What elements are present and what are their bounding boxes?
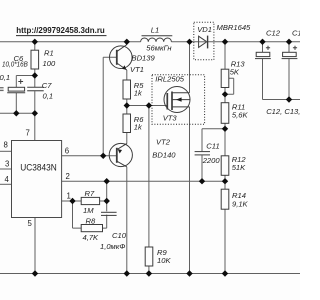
svg-text:1k: 1k — [134, 122, 143, 131]
node R11 C11 link — [222, 126, 228, 132]
diode VD1 — [199, 36, 208, 49]
wire L1 to VT3 drain junction — [189, 42, 191, 93]
svg-text:VT3: VT3 — [163, 114, 178, 123]
svg-text:6: 6 — [65, 147, 69, 156]
svg-text:2: 2 — [66, 172, 70, 181]
capacitor C13 — [282, 46, 298, 59]
resistor R5 — [123, 80, 131, 99]
svg-text:5K: 5K — [230, 67, 240, 76]
svg-text:C7: C7 — [42, 81, 52, 90]
node ground pin5 — [32, 270, 38, 276]
svg-text:3: 3 — [5, 160, 9, 169]
node bases junction — [100, 153, 106, 159]
wire VT2 collector to ground — [126, 167, 128, 274]
node mid rail pin7 — [32, 110, 38, 116]
svg-text:10K: 10K — [157, 256, 171, 265]
wire R12 to R14 — [224, 175, 226, 189]
node C13 bottom — [286, 96, 292, 102]
node top rail VT3 drain — [186, 39, 192, 45]
MOSFET VT3 IRL2505 — [164, 87, 190, 113]
svg-text:10,0*16В: 10,0*16В — [2, 60, 28, 69]
inductor L1 — [141, 36, 173, 42]
svg-text:C11: C11 — [206, 141, 219, 150]
svg-text:56мкГн: 56мкГн — [146, 43, 172, 52]
transistor VT2 BD140 — [109, 143, 132, 166]
svg-text:0,1: 0,1 — [43, 92, 54, 101]
node gate R9 — [146, 102, 152, 108]
svg-text:1M: 1M — [83, 206, 94, 215]
diode VD1 dashed box — [194, 22, 214, 60]
IC U1 UC3843N — [12, 141, 62, 218]
svg-text:L1: L1 — [151, 25, 159, 34]
svg-text:7: 7 — [26, 128, 30, 137]
svg-text:VT1: VT1 — [130, 65, 144, 74]
transistor VT1 BD139 — [110, 45, 133, 70]
capacitor C6 — [7, 79, 25, 93]
node top rail R1 — [32, 39, 38, 45]
node ground R14 — [222, 270, 228, 276]
svg-text:100: 100 — [43, 59, 56, 68]
wire pin 2 feedback net — [62, 180, 225, 182]
svg-text:5,6K: 5,6K — [232, 110, 249, 119]
wire C12 C13 bottom rail — [263, 42, 301, 100]
svg-text:1k: 1k — [134, 88, 143, 97]
node top rail R13 — [222, 39, 228, 45]
resistor R13 — [221, 69, 229, 87]
wire pin 6 to VT1 VT2 bases — [62, 57, 116, 156]
node R7 right — [104, 198, 110, 204]
wire pin 4 stub — [0, 183, 12, 185]
svg-text:UC3843N: UC3843N — [20, 163, 57, 174]
node ground R9 — [146, 270, 152, 276]
svg-text:0,1: 0,1 — [0, 73, 10, 82]
wire VT1 collector emitter column — [126, 42, 128, 80]
wire R7 right to C10 and R8 — [100, 181, 107, 228]
wire R14 to ground — [224, 209, 226, 273]
capacitor C12 — [255, 46, 271, 59]
svg-text:2200: 2200 — [202, 156, 221, 165]
node feedback R7 — [104, 178, 110, 184]
svg-text:http://299792458.3dn.ru: http://299792458.3dn.ru — [16, 25, 105, 35]
svg-text:VD1: VD1 — [197, 25, 212, 34]
svg-text:C12: C12 — [266, 29, 281, 38]
svg-text:4,7K: 4,7K — [83, 233, 100, 242]
node R13 tap bottom — [222, 91, 228, 97]
node feedback C11 — [199, 178, 205, 184]
wire VT3 source to ground — [189, 107, 191, 274]
wire R9 to ground — [148, 266, 150, 274]
wire R5 R6 gate node — [127, 99, 168, 114]
svg-text:R8: R8 — [86, 216, 96, 225]
capacitor C11 — [195, 152, 210, 155]
resistor R14 — [221, 189, 229, 209]
wire R11 to node — [224, 123, 226, 156]
resistor R12 — [221, 156, 229, 176]
svg-text:9,1K: 9,1K — [232, 199, 249, 208]
svg-text:VT2: VT2 — [156, 137, 171, 146]
wire pin 8 stub — [0, 150, 12, 152]
node gate divider — [124, 102, 130, 108]
wire pin 1 comp net — [62, 201, 82, 228]
node top rail C13 — [286, 39, 292, 45]
svg-text:C10: C10 — [112, 231, 127, 240]
wire pin 5 to ground — [34, 218, 36, 274]
svg-text:IRL2505: IRL2505 — [155, 74, 184, 83]
svg-text:MBR1645: MBR1645 — [217, 23, 252, 32]
wire mid VCC rail left — [0, 112, 35, 114]
MOSFET VT3 dashed box — [152, 75, 205, 124]
svg-text:C12, C13, 6: C12, C13, 6 — [266, 107, 300, 116]
wire R13 column top — [224, 42, 226, 103]
svg-text:R7: R7 — [85, 189, 95, 198]
resistor R1 — [31, 50, 39, 69]
resistor R11 — [221, 103, 229, 124]
node top rail C12 — [259, 39, 265, 45]
svg-text:5: 5 — [28, 219, 33, 228]
wire gate node to R9 — [148, 106, 150, 248]
node mid rail C6 — [13, 110, 19, 116]
svg-text:BD139: BD139 — [132, 53, 156, 62]
resistor R7 — [81, 197, 99, 204]
node top rail VT1 collector — [124, 39, 130, 45]
svg-text:4: 4 — [5, 175, 10, 184]
node feedback R12 R14 — [222, 178, 228, 184]
node pin1 comp — [69, 198, 75, 204]
svg-text:1,0мкФ: 1,0мкФ — [100, 242, 125, 251]
wire R13 tap — [225, 78, 234, 94]
svg-text:8: 8 — [4, 141, 8, 150]
capacitor C10 — [101, 212, 117, 215]
wire top supply rail — [0, 41, 300, 43]
wire R1 column to pin 7 — [16, 42, 35, 141]
resistor R9 — [145, 247, 153, 266]
resistor R8 — [81, 225, 102, 232]
node ground VT2 — [124, 270, 130, 276]
capacitor left edge cropped — [0, 88, 4, 91]
capacitor C7 — [27, 87, 44, 90]
node ground VT3 — [186, 270, 192, 276]
link underline — [16, 35, 107, 37]
svg-text:R1: R1 — [44, 48, 54, 57]
svg-text:1: 1 — [67, 192, 71, 201]
svg-text:51K: 51K — [232, 163, 246, 172]
wire bottom ground rail — [0, 273, 300, 275]
resistor R6 — [123, 114, 131, 133]
wire C11 link to R11 bottom — [202, 129, 225, 181]
node R1 bottom junction — [32, 72, 38, 78]
wire pin 3 stub — [0, 168, 12, 170]
svg-text:C13: C13 — [292, 29, 300, 38]
wire VT2 emitter column — [126, 133, 128, 144]
svg-text:BD140: BD140 — [152, 150, 176, 159]
